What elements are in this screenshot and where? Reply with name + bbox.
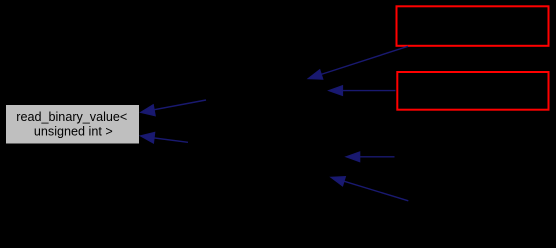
wire edge c: red box 1 -> center node xyxy=(308,46,408,79)
wire edge e: hidden node -> lower node (horizontal) xyxy=(346,152,395,162)
wire edge b: lower node -> grey node (lower) xyxy=(140,132,188,143)
svg-text:read_binary_value<: read_binary_value< xyxy=(16,110,127,124)
svg-text:unsigned int >: unsigned int > xyxy=(34,124,113,138)
node (truncated, red) top-right 1 xyxy=(397,6,549,46)
wire edge a: center node -> grey node (upper) xyxy=(141,100,207,116)
wire edge d: red box 2 -> center node xyxy=(329,86,396,96)
node (truncated, red) top-right 2 xyxy=(397,72,548,110)
node read_binary_value< unsigned int > (current node, grey) xyxy=(6,105,139,144)
wire edge f: hidden node -> lower node (diagonal) xyxy=(331,177,409,201)
